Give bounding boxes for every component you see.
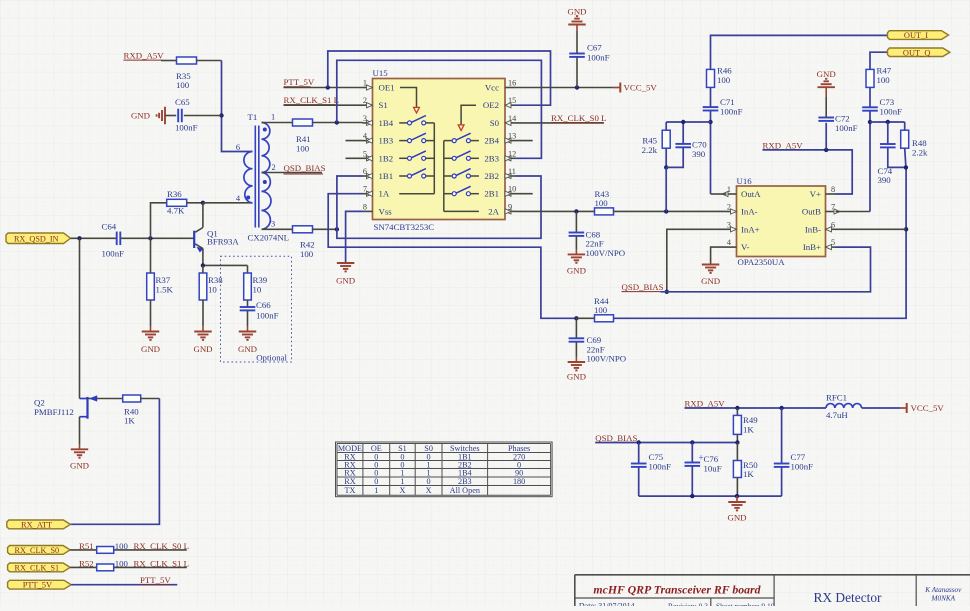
resistor R41 — [293, 119, 313, 126]
svg-text:GND: GND — [567, 372, 586, 382]
resistor R51 — [97, 547, 114, 554]
capacitor C64 — [116, 232, 118, 246]
svg-text:QSD_BIAS: QSD_BIAS — [622, 282, 664, 292]
capacitor C71 — [703, 106, 719, 108]
capacitor C70 — [675, 143, 691, 145]
resistor R40 — [123, 395, 141, 402]
svg-text:100nF: 100nF — [835, 123, 858, 133]
wire 2A to R43 — [516, 210, 595, 212]
junction R42 net — [335, 227, 339, 231]
capacitor C70 top leg — [682, 122, 684, 144]
capacitor C74 top leg — [887, 122, 889, 144]
junction input/Q2 branch — [77, 236, 81, 240]
wire C69 to ground — [575, 342, 577, 357]
wire PTT_5V bottom — [71, 584, 177, 586]
svg-text:R47: R47 — [877, 66, 892, 76]
svg-text:100nF: 100nF — [256, 311, 279, 321]
svg-text:3: 3 — [271, 220, 275, 229]
U15 pin 6 1B1 — [363, 175, 373, 177]
wire C74 bottom — [888, 148, 906, 168]
capacitor C72 bottom leg — [825, 123, 827, 150]
svg-text:100: 100 — [176, 80, 190, 90]
svg-text:100nF: 100nF — [791, 462, 814, 472]
wire feedback horizontal top — [666, 121, 710, 123]
capacitor C69 — [569, 337, 585, 339]
svg-text:mcHF QRP Transceiver RF board: mcHF QRP Transceiver RF board — [593, 583, 761, 597]
svg-text:1K: 1K — [124, 416, 135, 426]
port RX_CLK_S1 — [8, 563, 71, 572]
ground above C67 (hanging earth) — [568, 24, 586, 26]
wire C68 to ground — [575, 236, 577, 249]
capacitor C75 leg — [638, 443, 640, 464]
svg-text:1: 1 — [400, 477, 404, 486]
svg-text:1: 1 — [271, 113, 275, 122]
svg-text:GND: GND — [131, 111, 150, 121]
svg-text:2.2k: 2.2k — [912, 148, 928, 158]
svg-text:100: 100 — [717, 75, 731, 85]
wire RX_CLK_S0 to R51 — [70, 549, 97, 551]
U15 pin 11 2B2 — [505, 175, 516, 177]
junction at C65 — [219, 113, 223, 117]
ground under Q2 — [71, 448, 89, 450]
junction QSD_BIAS — [665, 290, 669, 294]
U15 pin 8 Vss — [363, 210, 373, 212]
svg-text:100: 100 — [115, 541, 129, 551]
svg-text:100: 100 — [115, 559, 129, 569]
U16 pin 5 InB+ — [826, 246, 836, 248]
svg-text:GND: GND — [141, 344, 160, 354]
U15 pin 1 OE1 — [363, 87, 373, 89]
svg-text:RX_CLK_S1: RX_CLK_S1 — [15, 563, 60, 572]
svg-text:1B3: 1B3 — [379, 136, 394, 146]
svg-text:X: X — [426, 486, 432, 495]
svg-text:2B4: 2B4 — [484, 136, 499, 146]
bottom rail wire — [639, 495, 782, 497]
wire R48 bottom leg — [905, 148, 906, 167]
svg-text:InB-: InB- — [805, 224, 821, 234]
wire InA+ to QSD_BIAS — [667, 229, 727, 291]
ground under C66 — [239, 331, 257, 333]
U15 pin 10 2B1 — [505, 193, 516, 195]
svg-text:R36: R36 — [167, 189, 182, 199]
svg-text:Vss: Vss — [379, 206, 393, 216]
capacitor C68 — [569, 232, 585, 234]
junction R45/C70 bottom — [664, 165, 668, 169]
U15 pin 13 2B4 — [505, 140, 516, 142]
svg-text:1K: 1K — [743, 425, 754, 435]
svg-text:100V/NPO: 100V/NPO — [586, 248, 626, 258]
svg-text:C71: C71 — [720, 97, 735, 107]
svg-text:R45: R45 — [642, 136, 657, 146]
junction R50 top — [735, 440, 739, 444]
U16 pin 2 InA- — [727, 211, 737, 213]
wire RXD_A5V to V+ — [763, 150, 853, 194]
svg-text:1.5K: 1.5K — [156, 285, 174, 295]
svg-text:Q2: Q2 — [34, 398, 45, 408]
wire Vss to ground — [346, 211, 363, 263]
svg-text:OUT_Q: OUT_Q — [903, 48, 930, 57]
resistor R48 — [901, 130, 909, 148]
svg-text:V+: V+ — [810, 189, 821, 199]
wire C67 to GND above — [576, 31, 578, 53]
svg-text:2.2k: 2.2k — [642, 145, 658, 155]
stub pin 5 — [346, 157, 363, 159]
junction R48/C74 bottom — [904, 165, 908, 169]
svg-text:100nF: 100nF — [649, 462, 672, 472]
U15 2A common line — [444, 210, 479, 212]
wire QSD_BIAS to InB+ — [661, 247, 871, 292]
net label QSD_BIAS on T1 tap — [262, 172, 323, 174]
svg-text:10uF: 10uF — [704, 464, 722, 474]
svg-text:1K: 1K — [743, 469, 754, 479]
wire base node up to R36 — [151, 203, 168, 239]
port OUT_I — [888, 31, 949, 40]
svg-text:PTT_5V: PTT_5V — [284, 77, 315, 87]
svg-text:0: 0 — [374, 477, 378, 486]
svg-text:R48: R48 — [912, 138, 927, 148]
svg-text:100: 100 — [300, 249, 314, 259]
svg-text:GND: GND — [701, 276, 720, 286]
svg-text:PTT_5V: PTT_5V — [23, 581, 52, 590]
wire rail OE1-OE2 over top — [328, 51, 551, 105]
IC U15 SN74CBT3253C body — [373, 79, 506, 220]
wire C66 to ground — [247, 310, 249, 326]
junction C76 bottom — [690, 494, 694, 498]
svg-text:8: 8 — [831, 185, 835, 194]
capacitor C75 — [631, 463, 647, 465]
U15 pin 15 OE2 — [505, 104, 516, 106]
resistor R52 — [97, 564, 114, 571]
junction C77 top — [779, 406, 783, 410]
svg-text:390: 390 — [878, 175, 892, 185]
wire T1 pin3 to R42 — [262, 228, 293, 230]
svg-text:CX2074NL: CX2074NL — [248, 233, 290, 243]
stub pin 10 — [516, 193, 533, 195]
port RX_QSD_IN — [6, 233, 71, 244]
svg-text:R37: R37 — [156, 275, 171, 285]
wire R43 to InA- — [614, 210, 727, 212]
junction collector/R36/T1-4 — [201, 201, 205, 205]
U15 pin 12 2B3 — [505, 157, 516, 159]
capacitor C72 — [818, 117, 834, 119]
power port VCC_5V (bottom) — [900, 407, 907, 409]
svg-text:RX_CLK_S0 L: RX_CLK_S0 L — [134, 541, 189, 551]
svg-text:K Atanassov: K Atanassov — [924, 586, 962, 594]
wire InB- from pin — [836, 228, 907, 230]
svg-text:All Open: All Open — [450, 486, 480, 495]
U15 pin 4 1B3 — [363, 140, 373, 142]
ground under C68 — [568, 253, 586, 255]
junction R49 top — [735, 406, 739, 410]
wire feedback horizontal right — [870, 121, 905, 123]
svg-text:1B4: 1B4 — [379, 118, 394, 128]
wire to R39 — [247, 265, 249, 273]
svg-text:S1: S1 — [379, 100, 388, 110]
wire R35 to T1 pin6 via corner — [197, 60, 222, 62]
capacitor C77 — [774, 463, 790, 465]
U15 pin 14 S0 — [505, 122, 516, 124]
svg-text:390: 390 — [692, 149, 706, 159]
resistor R36 — [167, 199, 187, 206]
svg-text:Optional: Optional — [256, 353, 287, 363]
U15 pin 16 Vcc — [505, 87, 516, 89]
svg-text:Sheet number: 9.10: Sheet number: 9.10 — [716, 601, 775, 606]
U15 OE1 enable arrow — [400, 88, 417, 108]
svg-text:C67: C67 — [587, 43, 602, 53]
wire R45 bottom leg — [665, 148, 667, 167]
capacitor C67 — [569, 53, 585, 55]
power port VCC_5V (top) — [614, 87, 621, 89]
wire OutA vertical to OUT_I — [711, 193, 727, 195]
junction C76 — [690, 440, 694, 444]
svg-text:100nF: 100nF — [175, 123, 198, 133]
svg-text:R39: R39 — [253, 275, 268, 285]
svg-text:C75: C75 — [649, 452, 664, 462]
resistor R48 top leg — [904, 122, 906, 130]
svg-text:RXD_A5V: RXD_A5V — [763, 140, 804, 150]
svg-text:C76: C76 — [704, 454, 719, 464]
resistor R43 — [595, 208, 614, 215]
junction C75 — [637, 440, 641, 444]
wire C75 to bottom rail — [638, 467, 640, 496]
svg-text:QSD_BIAS: QSD_BIAS — [284, 163, 326, 173]
svg-text:RXD_A5V: RXD_A5V — [685, 398, 726, 408]
inductor RFC1 4.7uH — [826, 404, 862, 408]
wire R41 to U15 pin 3 — [313, 122, 363, 124]
wire RX_QSD_IN to C64 — [71, 237, 117, 239]
svg-text:6: 6 — [236, 143, 240, 152]
svg-text:RX_ATT: RX_ATT — [21, 520, 52, 529]
svg-text:100: 100 — [296, 144, 310, 154]
svg-text:R41: R41 — [296, 134, 311, 144]
svg-text:Vcc: Vcc — [485, 83, 499, 93]
resistor R49 — [736, 408, 738, 415]
resistor R38 — [199, 273, 207, 300]
svg-text:2A: 2A — [488, 206, 499, 216]
svg-text:GND: GND — [567, 7, 586, 17]
T1 polarity dots — [246, 196, 250, 200]
wire R45 top leg — [665, 122, 667, 130]
wire C70 bottom to R45 — [666, 148, 683, 168]
svg-text:VCC_5V: VCC_5V — [911, 403, 945, 413]
IC U16 OPA2350UA body — [737, 186, 826, 257]
svg-text:1B1: 1B1 — [379, 171, 394, 181]
ground under R38 — [194, 331, 212, 333]
wire junction to T1 pin 4 — [203, 202, 253, 204]
U15 switch group 2 (2B4-2B1) — [444, 140, 452, 142]
svg-text:100V/NPO: 100V/NPO — [587, 354, 627, 364]
wire R49 to QSD_BIAS rail — [736, 434, 738, 442]
wire Vcc pin to VCC_5V port — [516, 87, 614, 89]
svg-text:SN74CBT3253C: SN74CBT3253C — [374, 222, 435, 232]
svg-text:RX_QSD_IN: RX_QSD_IN — [14, 234, 59, 243]
svg-text:M0NKA: M0NKA — [931, 595, 956, 603]
svg-text:TX: TX — [344, 486, 355, 495]
resistor R44 — [595, 315, 614, 322]
wire Q2 source to ground — [79, 417, 81, 444]
svg-text:GND: GND — [336, 276, 355, 286]
capacitor C74 — [880, 143, 896, 145]
svg-text:C77: C77 — [791, 452, 806, 462]
ground at U16 V- — [702, 264, 720, 266]
wire lead to R44 — [576, 317, 594, 319]
optional dashed box — [221, 256, 292, 362]
ground above C72 (hanging earth) — [817, 86, 835, 88]
U16 pin 3 InA+ — [727, 228, 737, 230]
ground at U15 Vss — [337, 262, 355, 264]
capacitor C69 leg — [575, 318, 577, 338]
svg-text:2: 2 — [272, 163, 276, 172]
svg-text:GND: GND — [567, 266, 586, 276]
junction C68 — [574, 209, 578, 213]
stub pin 13 — [516, 140, 533, 142]
U16 pin 4 V- — [727, 246, 737, 248]
wire emitter to R38 — [202, 265, 204, 273]
svg-text:OutA: OutA — [741, 189, 761, 199]
U15 pin 2 S1 — [363, 104, 373, 106]
wire QSD_BIAS rail — [595, 442, 737, 444]
svg-text:RX_CLK_S1 L: RX_CLK_S1 L — [284, 95, 339, 105]
svg-text:100: 100 — [595, 198, 609, 208]
svg-text:OPA2350UA: OPA2350UA — [738, 257, 786, 267]
title block frame — [575, 574, 970, 576]
wire R50 to bottom rail — [736, 478, 738, 497]
svg-text:OE2: OE2 — [483, 100, 499, 110]
svg-text:100nF: 100nF — [720, 107, 743, 117]
svg-text:RX Detector: RX Detector — [813, 590, 882, 605]
svg-text:R49: R49 — [743, 415, 758, 425]
svg-text:R42: R42 — [300, 240, 315, 250]
svg-text:100nF: 100nF — [102, 249, 125, 259]
svg-text:0: 0 — [427, 477, 431, 486]
ground under R37 — [142, 331, 160, 333]
wire R44 to InB- vertical — [614, 167, 907, 318]
svg-text:QSD_BIAS: QSD_BIAS — [595, 433, 637, 443]
junction C72 — [824, 148, 828, 152]
junction base/R36/R37 node — [148, 236, 152, 240]
svg-text:Date: 31/07/2014: Date: 31/07/2014 — [579, 601, 635, 606]
svg-text:1A: 1A — [379, 189, 390, 199]
U16 pin 7 OutB — [826, 211, 836, 213]
wire C67 down leg — [576, 57, 578, 87]
junction C74 top — [886, 120, 890, 124]
junction C70 top — [681, 120, 685, 124]
U15 1A common line — [399, 193, 434, 195]
wire RXD_A5V to R35 — [161, 60, 177, 62]
port RX_ATT — [7, 520, 71, 529]
resistor R45 — [662, 130, 670, 148]
svg-text:C72: C72 — [835, 114, 850, 124]
svg-text:4.7K: 4.7K — [167, 206, 185, 216]
ground under C69 — [568, 361, 586, 363]
svg-text:RX: RX — [344, 477, 355, 486]
svg-text:2B3: 2B3 — [458, 477, 472, 486]
wire C76 to bottom rail — [691, 466, 693, 496]
svg-text:InA+: InA+ — [741, 224, 760, 234]
svg-text:8: 8 — [363, 202, 367, 211]
mode table — [336, 442, 553, 497]
capacitor C68 leg — [575, 211, 577, 232]
svg-text:C69: C69 — [587, 335, 602, 345]
resistor R47 — [866, 69, 874, 87]
junction OE1 rail — [326, 85, 330, 89]
wire R42 to junction — [313, 228, 337, 230]
svg-text:GND: GND — [238, 344, 257, 354]
svg-text:OE1: OE1 — [379, 83, 395, 93]
svg-text:PMBFJ112: PMBFJ112 — [34, 407, 74, 417]
capacitor C76 (polarized) — [685, 462, 701, 464]
junction C69 — [574, 316, 578, 320]
wire C72 to GND above — [825, 97, 827, 117]
resistor R42 — [293, 226, 313, 233]
junction R41/1B4/rail — [335, 120, 339, 124]
junction OutA feedback — [708, 120, 712, 124]
U15 pin 7 1A — [363, 193, 373, 195]
resistor R37 — [150, 238, 152, 273]
svg-text:C65: C65 — [175, 97, 190, 107]
wire rail R41 net to 2B3 — [337, 60, 542, 158]
port RX_CLK_S0 — [8, 546, 71, 555]
transistor Q2 PMBFJ112 (JFET) — [80, 398, 88, 400]
svg-text:Revision: 0.3: Revision: 0.3 — [668, 601, 708, 606]
wire C64 to Q1 base — [120, 237, 194, 239]
wire R40 to RX_ATT — [141, 398, 160, 400]
svg-text:U15: U15 — [373, 68, 389, 78]
svg-text:RXD_A5V: RXD_A5V — [124, 51, 165, 61]
junction GND stem — [735, 494, 739, 498]
net label RX_CLK_S0 L at S0 — [516, 122, 605, 124]
svg-text:GND: GND — [70, 461, 89, 471]
wire feedback to InA- — [665, 167, 667, 211]
svg-text:4.7uH: 4.7uH — [826, 410, 848, 420]
svg-text:RFC1: RFC1 — [826, 393, 847, 403]
svg-text:GND: GND — [193, 344, 212, 354]
svg-text:2B1: 2B1 — [484, 189, 499, 199]
resistor R35 — [177, 57, 197, 64]
port OUT_Q — [888, 48, 950, 57]
U16 pin 8 V+ — [826, 193, 836, 195]
U15 switch group 1 (1B4-1B1) — [399, 122, 407, 124]
wire R37 to ground — [150, 300, 152, 326]
U15 pin 5 1B2 — [363, 157, 373, 159]
svg-text:2B2: 2B2 — [484, 171, 499, 181]
junction InB- wire — [904, 227, 908, 231]
svg-text:C66: C66 — [256, 300, 271, 310]
capacitor C66 — [240, 306, 256, 308]
junction C67 — [575, 85, 579, 89]
wire input down to Q2 — [79, 238, 81, 398]
ground bottom right — [736, 496, 738, 502]
capacitor C76 leg — [691, 443, 693, 463]
svg-text:X: X — [399, 486, 405, 495]
svg-text:C73: C73 — [880, 97, 895, 107]
capacitor C73 — [862, 106, 878, 108]
capacitor C65 — [177, 109, 179, 123]
junction feedback node InA- — [664, 209, 668, 213]
svg-text:GND: GND — [817, 69, 836, 79]
svg-text:InA-: InA- — [741, 207, 758, 217]
svg-text:U16: U16 — [737, 176, 753, 186]
svg-text:InB+: InB+ — [803, 242, 821, 252]
svg-text:100: 100 — [877, 75, 891, 85]
wire RX_CLK_S1_L to S1 — [284, 104, 363, 106]
resistor R50 — [736, 443, 738, 461]
capacitor C77 leg — [781, 408, 783, 463]
svg-text:R52: R52 — [79, 559, 94, 569]
svg-text:R46: R46 — [717, 66, 732, 76]
svg-text:RX_CLK_S1 L: RX_CLK_S1 L — [134, 559, 189, 569]
wire PTT_5V to OE1 — [284, 87, 363, 89]
